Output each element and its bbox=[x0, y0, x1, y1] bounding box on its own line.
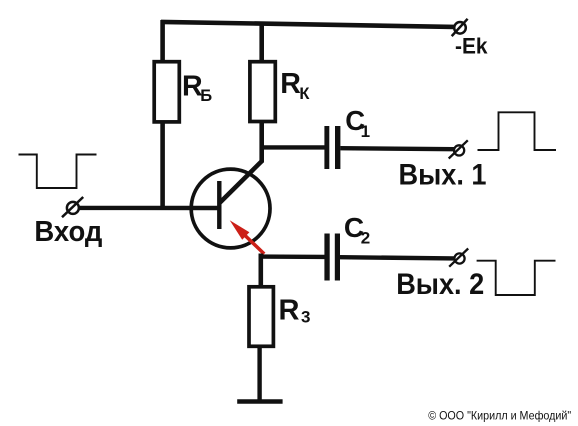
wire input bbox=[79, 206, 219, 211]
ground bbox=[237, 399, 282, 404]
svg-text:Вых. 1: Вых. 1 bbox=[399, 158, 487, 191]
output 1 positive pulse waveform bbox=[478, 112, 557, 150]
red arrow emitter bbox=[230, 220, 265, 254]
wire RБ bottom lead bbox=[160, 122, 165, 210]
svg-text:Вых. 2: Вых. 2 bbox=[396, 268, 484, 301]
svg-text:1: 1 bbox=[361, 122, 370, 141]
label C2 bbox=[344, 212, 370, 247]
wire collector diagonal bbox=[219, 161, 262, 204]
wire top supply rail bbox=[161, 22, 454, 27]
wire RК top lead bbox=[259, 22, 264, 63]
svg-text:R: R bbox=[279, 294, 300, 326]
transistor base bar bbox=[217, 181, 221, 229]
copyright text bbox=[428, 408, 571, 422]
terminal input bbox=[62, 197, 83, 217]
terminal output 1 bbox=[449, 140, 468, 158]
svg-text:К: К bbox=[299, 85, 310, 103]
svg-text:Вход: Вход bbox=[34, 216, 102, 248]
capacitor C2 bbox=[324, 234, 340, 281]
svg-text:R: R bbox=[280, 68, 301, 100]
label RБ bbox=[182, 71, 212, 105]
label R3 bbox=[279, 294, 311, 326]
wire C1 to output 1 bbox=[340, 148, 454, 149]
svg-text:3: 3 bbox=[301, 307, 310, 326]
label RК bbox=[280, 68, 310, 103]
terminal -Ek bbox=[452, 19, 468, 36]
wire RК bottom lead / collector vertical bbox=[259, 122, 264, 163]
svg-text:© ООО "Кирилл и Мефодий": © ООО "Кирилл и Мефодий" bbox=[428, 408, 571, 422]
output 2 negative pulse waveform bbox=[477, 261, 556, 295]
wire R3 to ground bbox=[257, 346, 261, 400]
resistor RК bbox=[250, 62, 275, 122]
label -Ek bbox=[455, 34, 488, 59]
wire C2 to output 2 bbox=[340, 257, 455, 258]
label Вход bbox=[34, 216, 102, 248]
label Вых. 1 bbox=[399, 158, 487, 191]
resistor RБ bbox=[154, 62, 179, 122]
resistor R3 bbox=[249, 287, 273, 347]
transistor VT circle bbox=[191, 169, 270, 248]
wire to C1 bbox=[260, 145, 326, 149]
capacitor C1 bbox=[324, 126, 340, 169]
label Вых. 2 bbox=[396, 268, 484, 301]
svg-text:2: 2 bbox=[361, 228, 370, 247]
wire RБ top lead bbox=[160, 20, 165, 63]
label C1 bbox=[345, 105, 370, 141]
terminal output 2 bbox=[449, 249, 468, 267]
svg-text:Б: Б bbox=[200, 87, 212, 105]
input negative pulse waveform bbox=[19, 155, 97, 189]
node emitter junction wires bbox=[259, 254, 326, 289]
svg-text:-Ek: -Ek bbox=[455, 34, 488, 59]
